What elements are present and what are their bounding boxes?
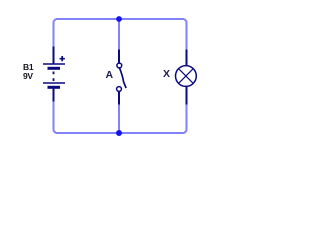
node junction dot top	[116, 16, 122, 22]
lamp top pin	[186, 50, 188, 66]
battery long plate 1	[43, 63, 65, 65]
lamp bulb circle	[176, 66, 197, 87]
battery B1	[43, 47, 65, 102]
lamp cross diagonal 1	[179, 69, 194, 84]
switch A	[117, 50, 127, 105]
switch top pin	[118, 50, 120, 64]
lamp cross diagonal 2	[179, 69, 194, 84]
battery bottom pin	[53, 89, 55, 102]
label B1	[23, 62, 33, 72]
wire loop rectangle	[54, 19, 187, 133]
switch blade (open)	[119, 68, 126, 88]
battery long plate 2	[43, 82, 65, 84]
switch bottom contact circle	[117, 87, 122, 92]
battery top pin	[53, 47, 55, 65]
label X	[163, 68, 170, 80]
lamp bottom pin	[186, 87, 188, 105]
battery plus sign	[60, 56, 65, 61]
battery dashed link	[53, 72, 55, 82]
battery short thick plate 1	[48, 67, 61, 70]
switch top contact circle	[117, 63, 122, 68]
battery short thick plate 2	[48, 86, 61, 89]
node junction dot bottom	[116, 130, 122, 136]
switch bottom pin	[118, 91, 120, 104]
label 9V	[23, 71, 33, 81]
wire middle branch	[118, 19, 120, 133]
label A	[106, 69, 114, 81]
lamp X	[176, 50, 197, 105]
